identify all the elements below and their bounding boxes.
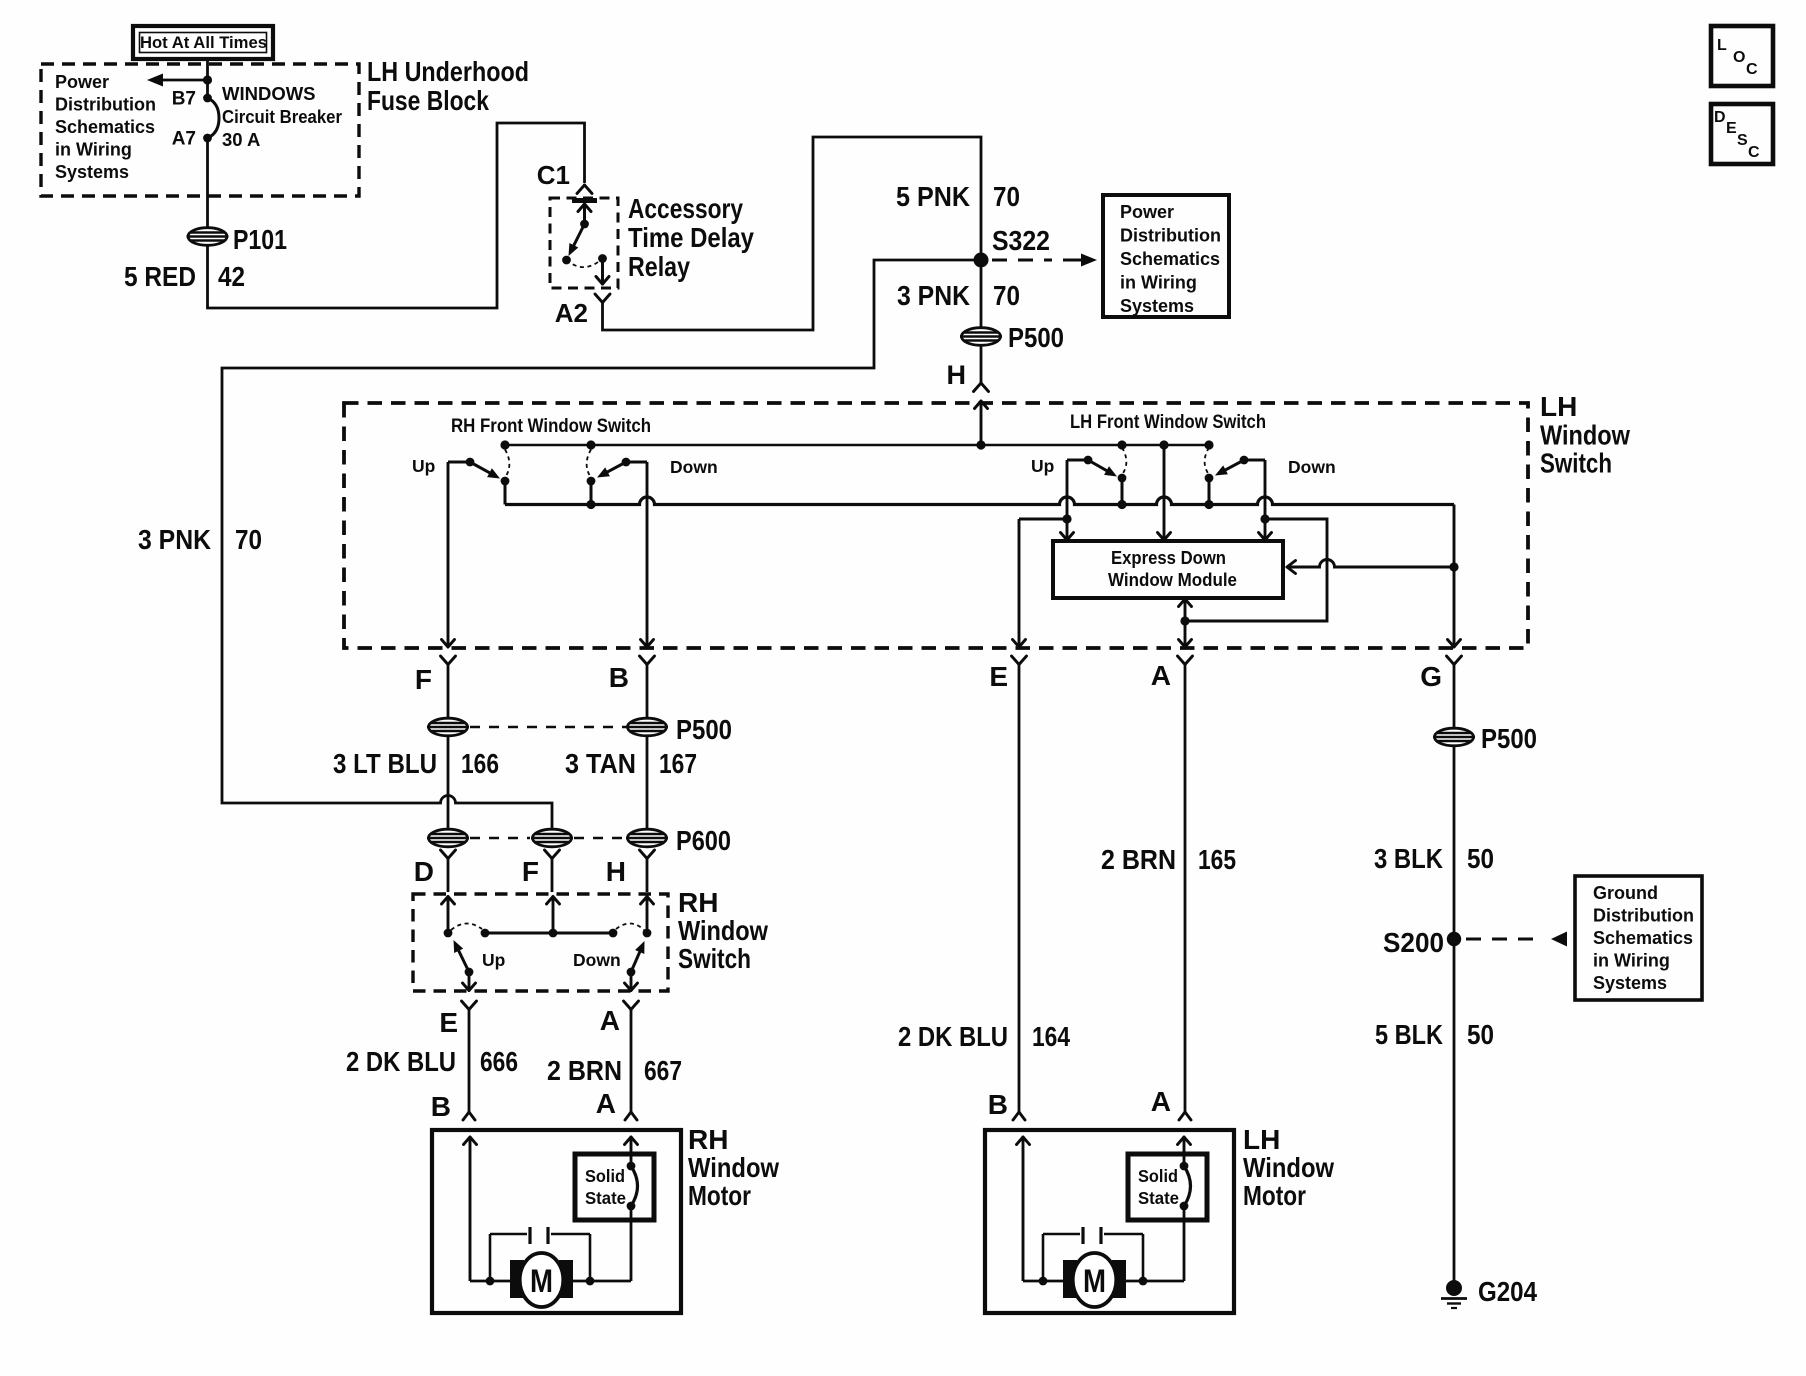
svg-text:Systems: Systems (1593, 973, 1667, 993)
splice S200 (1447, 932, 1461, 946)
ground G204 symbol (1441, 1280, 1467, 1308)
pin A fork below RH window switch (624, 1001, 639, 1010)
svg-text:Systems: Systems (55, 162, 129, 182)
RH switch pin E output arrow (463, 972, 476, 991)
pin D fork below P600 (441, 850, 456, 859)
label S322 (992, 225, 1050, 256)
svg-text:Ground: Ground (1593, 883, 1658, 903)
pin A2 fork (595, 294, 610, 303)
svg-text:2 DK BLU: 2 DK BLU (898, 1021, 1008, 1052)
pin H fork (974, 383, 989, 392)
wire label 2 DK BLU 666 (346, 1046, 518, 1077)
note box Ground Distribution Schematics in Wiring Systems (1575, 876, 1702, 1000)
RH switch pin A output arrow (625, 972, 638, 991)
label WINDOWS Circuit Breaker 30 A (222, 83, 342, 150)
svg-text:3 BLK: 3 BLK (1374, 843, 1443, 874)
wire switch feed line (500, 440, 1213, 449)
relay upper terminal arrow (578, 204, 591, 228)
dashed arrow S200 to ground distribution note (1466, 932, 1567, 947)
pin A fork above RH motor (625, 1112, 637, 1120)
label P500 (pin G) (1481, 723, 1537, 754)
svg-text:A: A (600, 1005, 620, 1036)
svg-text:164: 164 (1032, 1021, 1070, 1052)
wire pin D into RH window switch (447, 858, 450, 893)
LH front switch Up blade (1067, 456, 1117, 477)
svg-text:70: 70 (993, 181, 1020, 212)
wire label 2 BRN 667 (547, 1055, 682, 1086)
wire pin F to P500 (447, 665, 450, 719)
RH front switch Up contact (501, 450, 510, 505)
label LH Underhood Fuse Block (367, 56, 529, 116)
svg-text:3 PNK: 3 PNK (138, 524, 211, 555)
svg-text:G204: G204 (1478, 1276, 1537, 1307)
svg-text:Up: Up (1031, 456, 1054, 476)
wire B output to pin B (641, 462, 654, 647)
wire LH down output to module and pin A loop (1179, 460, 1328, 647)
RH switch Up blade (454, 940, 474, 976)
pin label A (RH switch) (600, 1005, 620, 1036)
wire switch common line with hops (505, 497, 1454, 509)
svg-text:2 BRN: 2 BRN (1101, 844, 1176, 875)
svg-text:O: O (1733, 49, 1745, 66)
svg-text:M: M (530, 1263, 553, 1299)
svg-text:5 PNK: 5 PNK (896, 181, 970, 212)
wire P101 to relay C1 (208, 123, 585, 308)
connector P500 (pin H) (960, 328, 1002, 346)
label RH Window Switch (678, 887, 768, 974)
wire P500 to P600 (3 LT BLU) (447, 736, 450, 830)
connector P101 (187, 228, 229, 246)
svg-text:LH Underhood: LH Underhood (367, 56, 529, 87)
svg-text:Solid: Solid (1138, 1166, 1178, 1186)
svg-text:A: A (596, 1088, 616, 1119)
svg-text:M: M (1083, 1263, 1106, 1299)
wire label 2 BRN 165 (1101, 844, 1236, 875)
label LH Front Window Switch (1070, 411, 1266, 433)
svg-text:Fuse Block: Fuse Block (367, 85, 489, 116)
pin label B (LH motor) (988, 1089, 1008, 1120)
wire common line to pin G (1448, 505, 1461, 648)
wire label 3 PNK 70 (left) (138, 524, 262, 555)
svg-text:Power: Power (1120, 202, 1174, 222)
pin label A (RH motor) (596, 1088, 616, 1119)
label P500 (row) (676, 714, 732, 745)
svg-text:Schematics: Schematics (55, 117, 155, 137)
svg-text:167: 167 (659, 748, 697, 779)
dashed arrow S322 to power distribution note (992, 254, 1097, 267)
svg-text:42: 42 (218, 261, 245, 292)
RH switch pin D arrow and contact (442, 897, 455, 938)
svg-text:3 LT BLU: 3 LT BLU (333, 748, 437, 779)
pin label E (RH switch) (439, 1007, 458, 1038)
note box Power Distribution Schematics in Wiring Systems (S322) (1103, 195, 1229, 317)
svg-text:50: 50 (1467, 843, 1494, 874)
wire label 3 TAN 167 (565, 748, 697, 779)
pin label D (P600) (414, 856, 434, 887)
pin label B (609, 662, 629, 693)
svg-text:Window: Window (1243, 1152, 1334, 1183)
pin label F (415, 664, 432, 695)
svg-text:Window Module: Window Module (1108, 569, 1237, 590)
svg-text:Motor: Motor (688, 1180, 751, 1211)
RH switch pin F arrow (547, 897, 560, 934)
svg-text:A7: A7 (172, 129, 196, 150)
pin B fork above RH motor (463, 1112, 475, 1120)
svg-text:LH Front Window Switch: LH Front Window Switch (1070, 411, 1266, 433)
RH front switch Up blade (448, 458, 500, 479)
svg-text:3 TAN: 3 TAN (565, 748, 636, 779)
svg-text:Schematics: Schematics (1120, 249, 1220, 269)
svg-text:Distribution: Distribution (55, 95, 156, 115)
svg-text:S: S (1737, 132, 1748, 149)
wire label 3 PNK 70 (center) (897, 280, 1020, 311)
pin label A (1151, 660, 1171, 691)
pin H fork below P600 (640, 850, 655, 859)
svg-text:LH: LH (1243, 1124, 1280, 1155)
svg-text:5 BLK: 5 BLK (1375, 1019, 1443, 1050)
wire A to RH motor A (2 BRN 667) (630, 1010, 633, 1113)
wire pin E to LH motor B (2 DK BLU 164) (1018, 665, 1021, 1113)
label RH Front Window Switch (451, 415, 651, 437)
svg-text:Time Delay: Time Delay (628, 222, 754, 253)
svg-text:RH: RH (678, 887, 718, 918)
wire pin B to P500 (646, 665, 649, 719)
pin label E (989, 661, 1008, 692)
RH switch dashed arc right (616, 923, 644, 930)
pin label A (LH motor) (1151, 1086, 1171, 1117)
pin B fork below LH window switch box (640, 656, 655, 665)
RH motor M armature circle (432, 1130, 681, 1313)
svg-text:B: B (609, 662, 629, 693)
wire 3 PNK branch S322 to P600 (long left run) (222, 260, 981, 829)
pin label B7 (172, 89, 196, 110)
svg-text:B: B (988, 1089, 1008, 1120)
relay contact (567, 254, 607, 267)
RH front switch Up label (412, 456, 435, 476)
pin C1 fork (577, 185, 592, 194)
svg-text:Distribution: Distribution (1593, 906, 1694, 926)
wire label 3 LT BLU 166 (333, 748, 499, 779)
pin label A7 (172, 129, 196, 150)
wire fuse box top to breaker B7 (206, 59, 209, 98)
svg-text:Switch: Switch (678, 943, 751, 974)
svg-text:Express Down: Express Down (1111, 547, 1226, 568)
svg-text:Down: Down (1288, 457, 1336, 477)
svg-text:D: D (414, 856, 434, 887)
svg-text:Hot At All Times: Hot At All Times (140, 33, 267, 52)
svg-text:P500: P500 (676, 714, 732, 745)
label box Hot At All Times (133, 26, 273, 59)
svg-text:A: A (1151, 660, 1171, 691)
svg-text:C: C (1746, 61, 1758, 78)
svg-text:WINDOWS: WINDOWS (222, 83, 316, 104)
RH front switch Down label (670, 457, 718, 477)
svg-text:in Wiring: in Wiring (55, 140, 132, 160)
pin E fork below LH window switch box (1012, 656, 1027, 665)
LH Window Switch dashed box (344, 403, 1528, 648)
LH front switch Up contact (1118, 448, 1127, 505)
svg-text:30 A: 30 A (222, 129, 260, 150)
svg-text:5 RED: 5 RED (124, 261, 196, 292)
RH switch Down blade (627, 941, 645, 976)
RH switch dashed arc left (451, 923, 482, 930)
svg-text:70: 70 (993, 280, 1020, 311)
wire pin F into RH window switch (551, 858, 554, 893)
svg-text:Systems: Systems (1120, 296, 1194, 316)
label Accessory Time Delay Relay (628, 193, 754, 282)
RH front switch Down contact (587, 450, 596, 505)
wire F output to pin F (442, 462, 455, 647)
wire pin A to LH motor A (2 BRN 165) (1184, 665, 1187, 1113)
svg-text:P600: P600 (676, 825, 731, 856)
svg-text:G: G (1420, 661, 1442, 692)
wire label 5 PNK 70 (896, 181, 1020, 212)
relay lower terminal arrow to A2 (596, 259, 609, 285)
splice S322 (974, 253, 989, 268)
wire label 5 BLK 50 (1375, 1019, 1494, 1050)
svg-text:State: State (1138, 1188, 1179, 1208)
svg-text:Down: Down (670, 457, 718, 477)
svg-text:B: B (431, 1091, 451, 1122)
pin A fork below LH window switch box (1178, 656, 1193, 665)
wire center feed into module (1158, 445, 1171, 540)
pin B fork above LH motor (1013, 1112, 1025, 1120)
DESC reference box (1711, 104, 1773, 164)
wire LH up output to module and pin E (1013, 460, 1074, 647)
wire label 2 DK BLU 164 (898, 1021, 1070, 1052)
pin G fork below LH window switch box (1447, 656, 1462, 665)
svg-text:Window: Window (1540, 420, 1630, 451)
svg-text:2 DK BLU: 2 DK BLU (346, 1046, 456, 1077)
pin label H (P600) (606, 856, 626, 887)
pin F fork below LH window switch box (441, 656, 456, 665)
svg-text:E: E (989, 661, 1008, 692)
svg-text:Relay: Relay (628, 251, 690, 282)
wire label 3 BLK 50 (1374, 843, 1494, 874)
wire pin G to P500 (1453, 665, 1456, 729)
pin A fork above LH motor (1179, 1112, 1191, 1120)
svg-text:in Wiring: in Wiring (1593, 951, 1670, 971)
svg-text:Accessory: Accessory (628, 193, 743, 224)
connector P600 row (D F H) (427, 829, 668, 847)
pin label H (947, 360, 967, 390)
svg-text:166: 166 (461, 748, 499, 779)
RH switch pin H arrow and contact (641, 897, 654, 938)
svg-text:Schematics: Schematics (1593, 928, 1693, 948)
pin label F (P600) (522, 856, 539, 887)
svg-text:Down: Down (573, 950, 621, 970)
svg-text:S200: S200 (1383, 927, 1444, 958)
svg-text:RH Front Window Switch: RH Front Window Switch (451, 415, 651, 437)
Express Down Window Module box (1053, 541, 1283, 598)
fuse block dashed box LH Underhood Fuse Block (41, 64, 359, 196)
svg-text:F: F (415, 664, 432, 695)
wire breaker A7 to connector P101 (206, 138, 209, 228)
LH front switch Down contact (1205, 448, 1214, 505)
relay switch blade (562, 224, 584, 264)
svg-text:P500: P500 (1481, 723, 1537, 754)
label P101 (233, 224, 287, 255)
svg-text:A2: A2 (555, 298, 588, 328)
note Power Distribution Schematics in Wiring Systems (fuse block) (55, 72, 156, 182)
RH Window Switch dashed box (413, 894, 668, 991)
svg-text:70: 70 (235, 524, 262, 555)
connector P500 (pin G) (1433, 728, 1475, 746)
circuit breaker WINDOWS 30 A (203, 94, 219, 143)
LOC reference box (1711, 26, 1773, 86)
svg-text:F: F (522, 856, 539, 887)
svg-text:667: 667 (644, 1055, 682, 1086)
pin H arrow into LH window switch (975, 401, 988, 445)
label LH Window Switch (1540, 391, 1630, 479)
svg-text:Window: Window (688, 1152, 779, 1183)
pin label A2 (555, 298, 588, 328)
wire S322 to connector P500 (3 PNK 70) (980, 260, 983, 328)
svg-text:E: E (439, 1007, 458, 1038)
svg-text:50: 50 (1467, 1019, 1494, 1050)
svg-text:L: L (1717, 37, 1727, 54)
svg-text:Power: Power (55, 72, 109, 92)
pin label B (RH motor) (431, 1091, 451, 1122)
LH front switch Down blade (1215, 456, 1265, 476)
wire P500 to pin H (980, 346, 983, 384)
RH front switch Down blade (597, 458, 647, 478)
svg-text:D: D (1714, 109, 1726, 126)
svg-text:P101: P101 (233, 224, 287, 255)
label G204 (1478, 1276, 1537, 1307)
svg-text:Motor: Motor (1243, 1180, 1306, 1211)
svg-text:RH: RH (688, 1124, 728, 1155)
RH switch Down label (573, 950, 621, 970)
connector P500 row (F and B) (427, 718, 668, 736)
svg-text:E: E (1726, 120, 1737, 137)
pin E fork below RH window switch (462, 1001, 477, 1010)
svg-text:S322: S322 (992, 225, 1050, 256)
wire relay A2 to splice S322 (5 PNK 70) (603, 137, 982, 330)
svg-text:H: H (947, 360, 967, 390)
wire pin H into RH window switch (646, 858, 649, 893)
pin F fork below P600 (545, 850, 560, 859)
LH front switch Up label (1031, 456, 1054, 476)
svg-text:Solid: Solid (585, 1166, 625, 1186)
wire label 5 RED 42 (124, 261, 245, 292)
relay Accessory Time Delay Relay dashed box (550, 198, 618, 288)
RH switch bus line (481, 929, 618, 938)
LH front switch Down label (1288, 457, 1336, 477)
svg-text:Circuit Breaker: Circuit Breaker (222, 106, 342, 127)
wire S200 to ground G204 (5 BLK 50) (1453, 939, 1456, 1282)
wire P500 to P600 (3 TAN) (646, 736, 649, 830)
svg-text:Up: Up (482, 950, 505, 970)
svg-text:P500: P500 (1008, 322, 1064, 353)
wire feed stub with arrow to power distribution note (147, 74, 212, 87)
svg-text:B7: B7 (172, 89, 196, 110)
wire E to RH motor B (2 DK BLU 666) (468, 1010, 471, 1113)
svg-text:C1: C1 (537, 160, 570, 190)
svg-text:165: 165 (1198, 844, 1236, 875)
label P500 (pin H) (1008, 322, 1064, 353)
svg-text:2 BRN: 2 BRN (547, 1055, 622, 1086)
wire module feedback from G line (1287, 560, 1459, 574)
svg-text:666: 666 (480, 1046, 518, 1077)
RH switch Up label (482, 950, 505, 970)
svg-text:Distribution: Distribution (1120, 226, 1221, 246)
svg-text:State: State (585, 1188, 626, 1208)
svg-text:Up: Up (412, 456, 435, 476)
svg-text:A: A (1151, 1086, 1171, 1117)
pin label G (1420, 661, 1442, 692)
svg-text:H: H (606, 856, 626, 887)
svg-text:Switch: Switch (1540, 448, 1612, 479)
svg-text:C: C (1748, 144, 1760, 161)
svg-text:in Wiring: in Wiring (1120, 273, 1197, 293)
svg-text:LH: LH (1540, 391, 1577, 422)
pin label C1 (537, 160, 570, 190)
wire P500 to splice S200 (3 BLK 50) (1453, 746, 1456, 940)
label P600 (676, 825, 731, 856)
label S200 (1383, 927, 1444, 958)
svg-text:Window: Window (678, 915, 768, 946)
svg-text:3 PNK: 3 PNK (897, 280, 970, 311)
LH motor M armature circle (985, 1130, 1234, 1313)
